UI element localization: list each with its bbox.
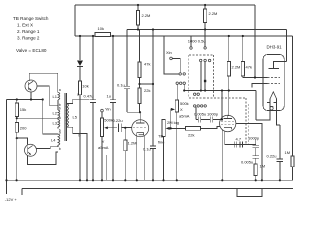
wire HT rail C y29.5 <box>127 29 287 31</box>
wire 47k to DH3-91 grid1 <box>243 76 268 78</box>
cathode pentode <box>224 127 231 129</box>
switch S1c contacts <box>194 105 196 107</box>
resistor R 2.2M left <box>136 11 139 26</box>
capacitor 1000p right <box>255 139 257 145</box>
wire right HT drop <box>292 36 294 156</box>
switch S1b pole from rail <box>190 36 192 47</box>
svg-text:500k: 500k <box>180 101 189 106</box>
wire S1a contacts down to bus <box>200 62 202 91</box>
svg-text:2M log: 2M log <box>167 120 179 125</box>
svg-text:L1: L1 <box>53 94 58 99</box>
capacitor 1u <box>112 36 114 100</box>
filament DH3-91 <box>270 92 276 99</box>
svg-text:L4: L4 <box>51 138 56 143</box>
svg-text:TB Range Switch: TB Range Switch <box>13 16 49 21</box>
wire 22k junction to x153 <box>140 83 154 85</box>
svg-text:2.2M: 2.2M <box>209 11 218 16</box>
transformer T1 core <box>64 93 66 141</box>
svg-text:0.005u: 0.005u <box>241 160 253 165</box>
svg-text:0.22u: 0.22u <box>113 118 123 123</box>
resistor 200 <box>16 117 18 123</box>
valve V2 ECL80 pentode <box>220 115 236 131</box>
junction dots ground rail <box>5 179 281 181</box>
svg-text:a: a <box>59 116 61 120</box>
wire Q1 base to L1b <box>37 86 58 105</box>
capacitor 0.47u <box>92 36 94 100</box>
winding L1 <box>58 92 60 100</box>
switch S1b upper contacts <box>179 73 181 75</box>
winding L4 <box>58 134 60 145</box>
wire S1b feed <box>164 36 179 74</box>
wire emitter node to L4a <box>43 100 58 135</box>
resistor 2.2M right <box>228 36 230 62</box>
grid 1 dashes DH3-91 <box>268 77 281 79</box>
svg-text:0.1u: 0.1u <box>143 147 151 152</box>
resistor 47k anode load <box>139 30 141 63</box>
svg-text:a: a <box>59 131 61 135</box>
svg-text:b: b <box>79 134 81 138</box>
svg-text:Valve = ECL80: Valve = ECL80 <box>16 48 47 53</box>
svg-text:1. Ext X: 1. Ext X <box>17 23 33 28</box>
svg-text:10k: 10k <box>98 26 104 31</box>
svg-text:Xin: Xin <box>166 50 172 55</box>
valve V1 ECL80 triode <box>132 120 149 137</box>
wiper arrow Y pot <box>107 127 117 129</box>
switch S1c poles <box>194 93 196 95</box>
pot 500k X <box>175 100 178 112</box>
svg-text:0.1u: 0.1u <box>117 83 125 88</box>
svg-text:1000p: 1000p <box>248 135 260 140</box>
resistor 15k <box>16 100 18 104</box>
wire bank left drop <box>195 107 197 119</box>
svg-text:Yin: Yin <box>105 107 111 112</box>
pin circle DH3-91 <box>270 107 273 110</box>
wire pentode screen to right <box>236 124 262 181</box>
capacitor 0.1u timebase <box>126 30 128 87</box>
svg-text:15k: 15k <box>20 107 26 112</box>
svg-text:3. Range 2: 3. Range 2 <box>17 36 40 41</box>
wire 0.22u drop <box>279 125 281 159</box>
svg-text:0.47u: 0.47u <box>84 94 94 99</box>
cathode triode <box>137 133 144 135</box>
resistor 47k right <box>242 36 244 62</box>
wire anode feed from HT <box>286 30 288 62</box>
svg-text:L5: L5 <box>73 115 78 120</box>
wire bus y90.5 <box>184 90 256 92</box>
grid 2 dashes DH3-91 <box>268 83 281 85</box>
wire 15k-200 tap to L3a <box>17 117 58 119</box>
capacitor 0.1u lower <box>150 145 156 147</box>
resistor 22k anode load <box>139 78 141 89</box>
svg-text:a: a <box>59 88 61 92</box>
wire left drop from HT rail <box>74 5 76 36</box>
note: TB Range Switch legend <box>13 16 49 53</box>
wire L5a <box>67 99 90 103</box>
wire Q2 right lead to L4b <box>36 147 57 149</box>
svg-text:2.2M: 2.2M <box>142 13 151 18</box>
ground rail 2 <box>22 188 293 190</box>
svg-text:DH3-91: DH3-91 <box>267 45 283 50</box>
wire Q1 collector <box>29 73 58 81</box>
wire HT rail B y36 <box>75 35 95 37</box>
svg-text:22k: 22k <box>144 88 150 93</box>
svg-text:47k: 47k <box>246 65 252 70</box>
capacitor 0.22u coupling <box>118 123 120 132</box>
svg-text:1M: 1M <box>285 150 291 155</box>
svg-text:a5mA: a5mA <box>98 145 109 150</box>
capacitor 0.005u lower <box>253 155 259 157</box>
svg-text:-12V +: -12V + <box>5 197 18 202</box>
resistor R 2.2M mid <box>204 9 207 23</box>
transistor Q1 <box>25 80 37 92</box>
wire long drop x153 <box>152 30 154 147</box>
wire left rail <box>6 100 8 195</box>
svg-text:b: b <box>59 107 61 111</box>
svg-text:b: b <box>59 147 61 151</box>
capacitor 0.22u right <box>277 158 283 160</box>
svg-text:1000p: 1000p <box>207 112 219 117</box>
wire cathode bank <box>225 144 256 146</box>
pot 2M log TB fine <box>162 120 165 137</box>
wire bus drop to cap bank <box>221 91 223 120</box>
anode DH3-91 <box>268 67 279 69</box>
wire emitter node rail <box>7 99 43 101</box>
svg-text:0.22u: 0.22u <box>267 154 277 159</box>
switch gang dashed link <box>245 98 247 145</box>
resistor 22k grid stopper <box>186 127 201 131</box>
wire L5b <box>67 127 88 180</box>
svg-text:a5mA: a5mA <box>179 114 190 119</box>
wire L4b <box>57 145 59 147</box>
svg-text:1000 0.5u: 1000 0.5u <box>188 38 206 43</box>
resistor 1M right <box>291 156 294 167</box>
wire pentode heater legs <box>221 130 223 180</box>
base pin marks DH3-91 <box>267 102 271 104</box>
wire 10k bottom to ground rail <box>79 95 81 181</box>
svg-text:22k: 22k <box>188 133 194 138</box>
svg-text:fine: fine <box>158 140 165 145</box>
resistor 1M cathode <box>255 158 257 164</box>
svg-text:2.2M: 2.2M <box>232 65 241 70</box>
wiper arrow 2M pot <box>166 127 170 130</box>
wire triode heater stub <box>144 136 146 181</box>
switch gang dashed box <box>189 54 214 56</box>
wire Q2 emitter loop <box>28 152 58 165</box>
wire Q1 emitter <box>30 92 32 100</box>
wire 200 bottom to Q2 <box>17 138 28 145</box>
winding L3 <box>58 120 60 128</box>
svg-text:L3: L3 <box>53 121 58 126</box>
capacitor cathode 2 <box>239 141 241 147</box>
svg-text:TB: TB <box>158 134 163 139</box>
svg-text:2. Range 1: 2. Range 1 <box>17 29 40 34</box>
grid dashes triode <box>133 127 147 129</box>
svg-text:47k: 47k <box>144 62 150 67</box>
wire aux stub <box>105 155 107 180</box>
resistor 10k horizontal <box>95 33 111 37</box>
svg-text:X: X <box>180 107 183 112</box>
transistor Q2 <box>25 144 37 156</box>
grid dashes pentode <box>221 121 234 123</box>
wire anode node <box>127 104 140 113</box>
svg-text:1.2M: 1.2M <box>128 140 137 145</box>
wire 22k to pentode grid <box>201 127 220 129</box>
svg-text:1M: 1M <box>260 164 266 169</box>
svg-text:4.7: 4.7 <box>236 137 242 142</box>
svg-text:10k: 10k <box>82 84 88 89</box>
svg-text:200: 200 <box>20 126 27 131</box>
wire x255 from top rail <box>254 5 256 78</box>
wiper arrow X pot <box>171 108 175 111</box>
resistor 10k vertical <box>79 67 81 82</box>
capacitor 1000p switch bank <box>201 119 211 121</box>
diode D1 <box>79 36 81 60</box>
resistor 1.2M grid leak <box>124 127 126 129</box>
supply terminal stub <box>21 189 23 196</box>
capacitor 0.005u switch bank <box>196 119 198 121</box>
svg-text:a: a <box>77 93 79 97</box>
wire L3ab <box>57 118 59 120</box>
ground rail 1 <box>7 179 293 181</box>
svg-text:L2: L2 <box>53 111 58 116</box>
switch S1a pole <box>204 30 206 47</box>
wire top HT rail <box>75 4 255 6</box>
switch S1a contacts <box>200 59 202 61</box>
svg-text:1u: 1u <box>107 94 111 99</box>
wire L1b <box>57 100 59 110</box>
capacitor 4.7 <box>233 141 235 147</box>
winding L5 <box>67 104 69 128</box>
pot 500k Y input <box>101 109 104 112</box>
switch S1b contacts <box>176 82 178 84</box>
wire bottom right stub <box>237 189 262 197</box>
wire S1b to bus <box>183 84 185 90</box>
winding L2 <box>58 110 60 118</box>
